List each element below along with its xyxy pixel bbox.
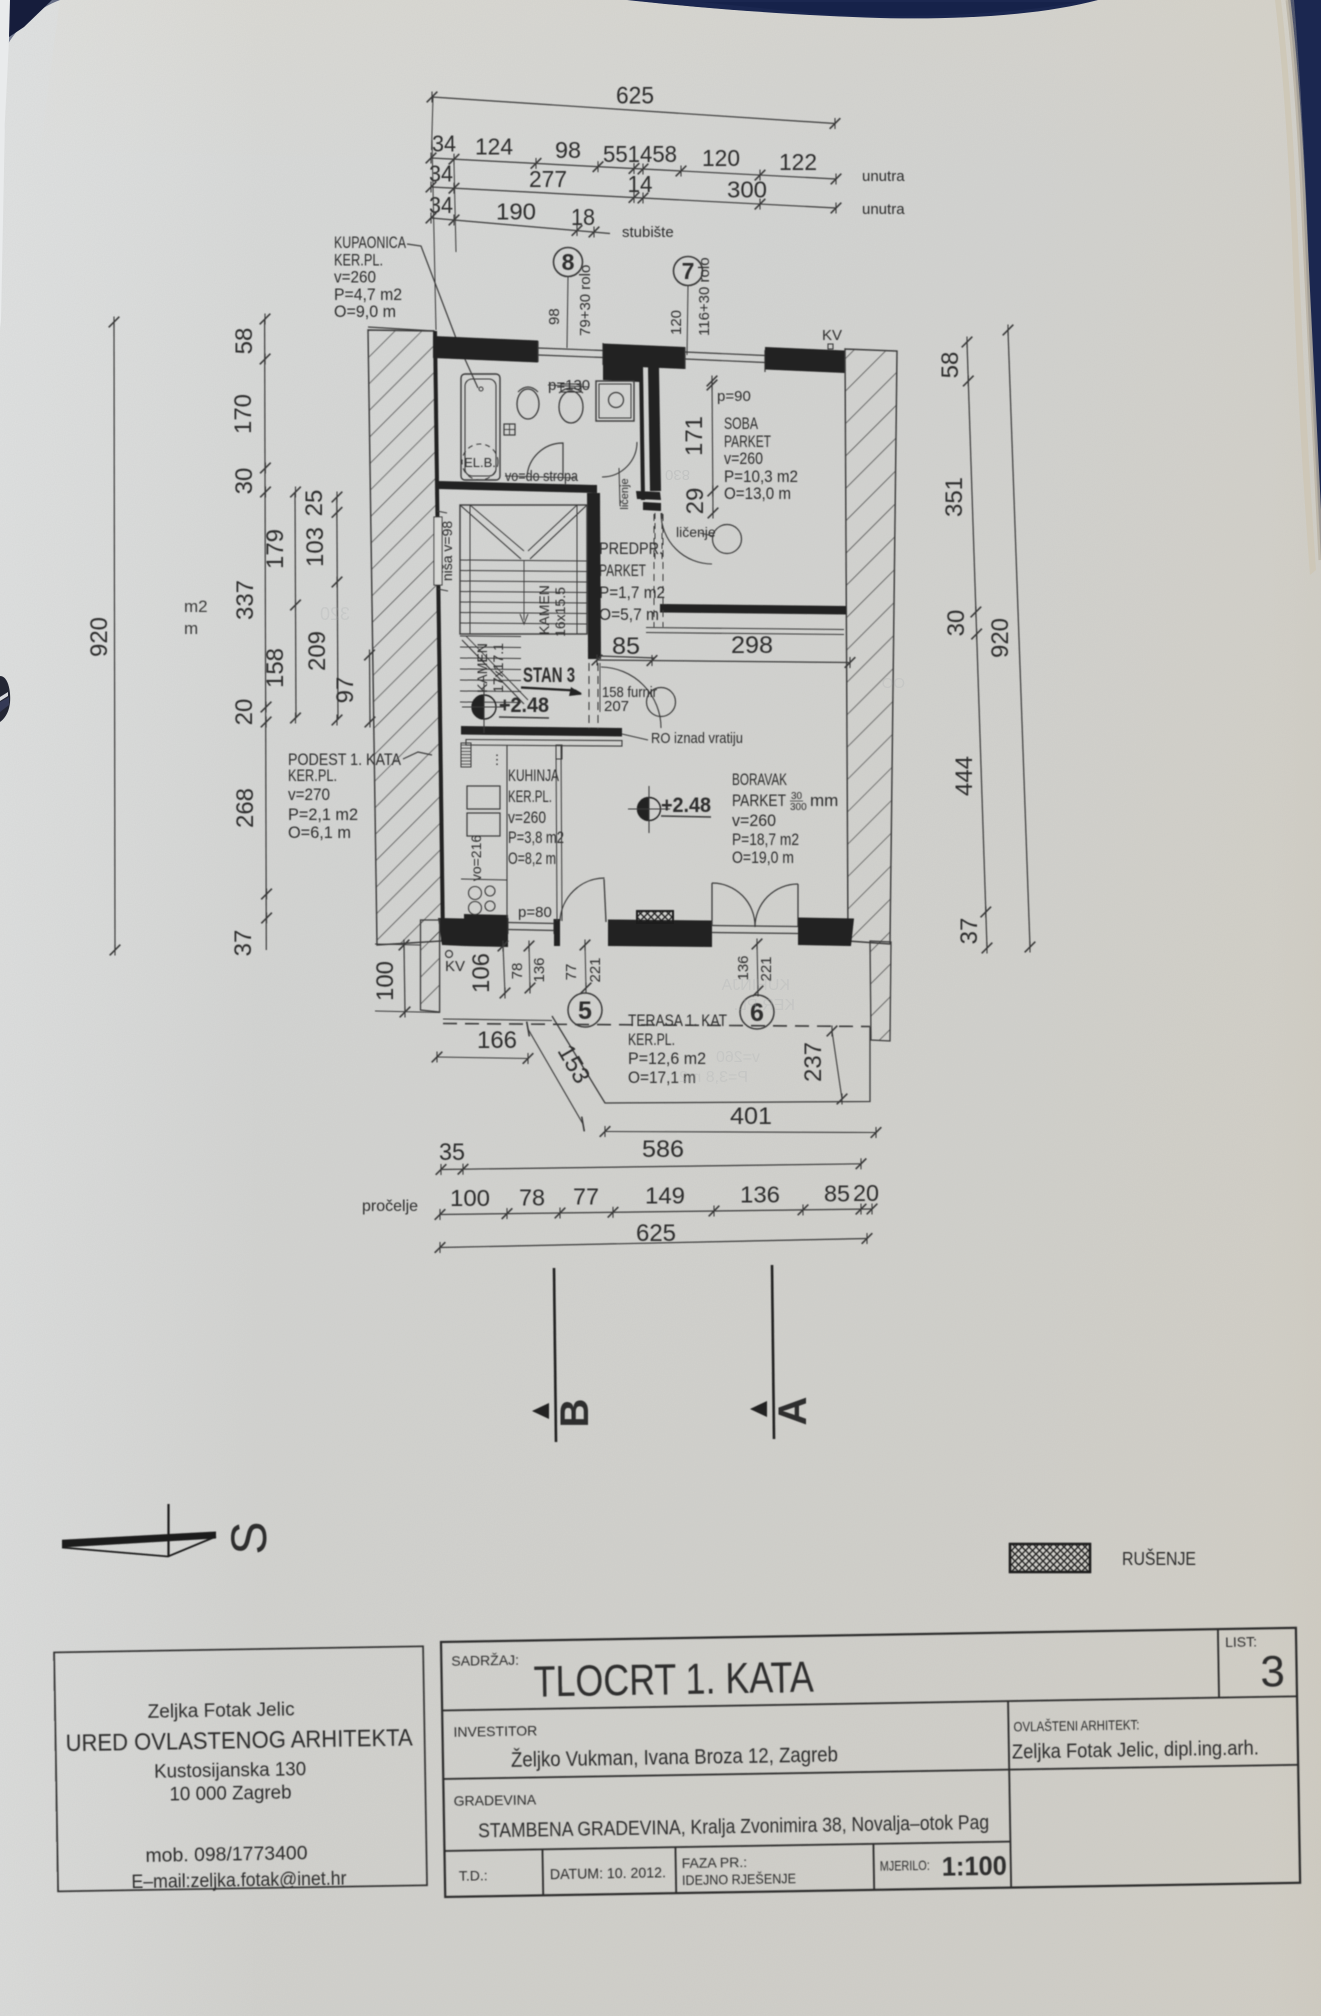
svg-text:unutra: unutra [862, 168, 905, 185]
dim 136 221 right [757, 942, 758, 993]
svg-text:97: 97 [332, 677, 359, 704]
svg-text:KAMEN: KAMEN [536, 585, 552, 635]
svg-text:KV: KV [445, 958, 465, 975]
predpr door top line [600, 656, 655, 658]
svg-text:14: 14 [628, 171, 653, 197]
svg-text:pročelje: pročelje [362, 1198, 418, 1215]
left dim col 58 170 30 337 20 268 37 [265, 319, 267, 950]
left dim col 179 158 [295, 492, 296, 718]
svg-text:149: 149 [645, 1183, 685, 1209]
left dim 920 [114, 322, 115, 950]
svg-text:Zeljka Fotak Jelic: Zeljka Fotak Jelic [147, 1699, 294, 1722]
level +2.48 stan [472, 695, 496, 719]
svg-text:P=1,7 m2: P=1,7 m2 [599, 583, 665, 602]
svg-text:320: 320 [320, 604, 350, 624]
stair stringers [469, 505, 471, 634]
svg-text:KUHINJA: KUHINJA [721, 977, 790, 994]
svg-text:T.D.:: T.D.: [459, 1867, 488, 1883]
svg-text:5: 5 [578, 997, 592, 1025]
svg-text:KER.PL.: KER.PL. [334, 250, 383, 269]
RO wall [461, 726, 622, 737]
window stubiste [538, 348, 603, 351]
svg-text:625: 625 [616, 82, 654, 109]
soba south wall [660, 604, 846, 615]
svg-text:MJERILO:: MJERILO: [880, 1857, 930, 1874]
svg-text:16x15.5: 16x15.5 [552, 587, 568, 637]
svg-text:mm: mm [810, 791, 838, 810]
svg-text:TERASA 1. KAT: TERASA 1. KAT [628, 1011, 727, 1030]
left info box [54, 1646, 427, 1891]
svg-text:vo=216: vo=216 [468, 835, 484, 882]
wall top-left outer line [368, 327, 434, 331]
svg-text:P=18,7 m2: P=18,7 m2 [732, 830, 799, 849]
svg-text:8: 8 [562, 249, 575, 275]
dim row 35 586 [441, 1164, 861, 1170]
svg-text:179: 179 [262, 529, 289, 569]
section line B [554, 1268, 556, 1442]
svg-text:337: 337 [232, 580, 259, 620]
svg-text:ličenje: ličenje [676, 524, 716, 540]
svg-text:STAN 3: STAN 3 [523, 664, 575, 687]
left dim col 25 103 209 [337, 497, 338, 720]
svg-text:122: 122 [779, 149, 817, 175]
svg-text:+2.48: +2.48 [499, 694, 549, 717]
svg-text:120: 120 [702, 145, 740, 171]
svg-text:30: 30 [943, 610, 970, 637]
EL.B. boiler dashed circle [462, 444, 498, 480]
stair arrow [523, 560, 525, 620]
svg-text:BORAVAK: BORAVAK [732, 770, 787, 789]
sink circles [469, 887, 482, 900]
section circle 7 [674, 257, 703, 286]
svg-text:ličenje: ličenje [619, 478, 631, 509]
svg-text:PARKET: PARKET [599, 561, 646, 580]
left wall inner thick line [433, 331, 445, 941]
svg-text:SOBA: SOBA [724, 414, 758, 433]
svg-text:120: 120 [668, 310, 685, 335]
svg-text:TLOCRT 1. KATA: TLOCRT 1. KATA [533, 1653, 814, 1707]
svg-text:100: 100 [372, 961, 399, 1001]
svg-text:O=5,7 m: O=5,7 m [599, 605, 659, 624]
svg-text:20: 20 [853, 1180, 879, 1206]
soba west wall [648, 366, 661, 491]
comb drainer [461, 743, 471, 767]
svg-text:KAMEN: KAMEN [474, 643, 490, 693]
treads lower flight [460, 635, 521, 638]
demolition patch on pier [637, 911, 673, 923]
svg-text:124: 124 [475, 133, 513, 159]
svg-text:v=260: v=260 [508, 808, 546, 827]
svg-text:830: 830 [665, 466, 690, 483]
svg-text:S: S [221, 1521, 277, 1554]
svg-text:277: 277 [529, 166, 567, 192]
svg-text:v=260: v=260 [334, 268, 376, 287]
svg-text:237: 237 [800, 1042, 827, 1082]
svg-text:1:100: 1:100 [942, 1851, 1007, 1882]
pointer podest [403, 752, 432, 759]
dim 625 top [432, 97, 835, 124]
svg-text:920: 920 [987, 618, 1014, 658]
right band lower strip [870, 941, 891, 1041]
svg-text:29: 29 [682, 488, 709, 515]
rusenje swatch [1010, 1544, 1090, 1572]
svg-text:stubište: stubište [622, 224, 674, 241]
svg-text:58: 58 [231, 328, 258, 355]
svg-text:166: 166 [477, 1027, 517, 1054]
svg-text:KER.PL.: KER.PL. [508, 787, 552, 806]
paper right edge stack [1288, 0, 1321, 560]
wc wall chunk [603, 362, 640, 382]
svg-text:O=9,0 m: O=9,0 m [334, 302, 396, 321]
svg-text:103: 103 [302, 527, 329, 567]
svg-text:+2.48: +2.48 [661, 794, 711, 817]
wall right of stairs [587, 493, 601, 659]
svg-text:35: 35 [439, 1139, 465, 1166]
svg-text:P=12,6 m2: P=12,6 m2 [628, 1049, 706, 1068]
svg-text:20: 20 [231, 699, 258, 726]
north arrow [62, 1532, 216, 1548]
svg-text:586: 586 [642, 1136, 684, 1163]
circle 5 [568, 993, 602, 1027]
toilet 1 [517, 389, 539, 419]
svg-text:30: 30 [231, 468, 258, 495]
svg-text:O=6,1 m: O=6,1 m [288, 823, 351, 842]
svg-text:920: 920 [86, 617, 113, 657]
lower double line [646, 628, 844, 630]
dim 78 136 [529, 944, 530, 990]
svg-text:268: 268 [232, 788, 259, 828]
svg-text:O=19,0 m: O=19,0 m [732, 848, 794, 867]
dim 237 [832, 1031, 842, 1099]
wc door arc [602, 442, 637, 477]
column circle [713, 525, 742, 554]
svg-text:100: 100 [450, 1185, 490, 1211]
treads upper [460, 560, 587, 561]
svg-text:P=4,7 m2: P=4,7 m2 [334, 285, 402, 304]
svg-text:17x17.1: 17x17.1 [490, 643, 506, 693]
bottom wall corner block [464, 914, 508, 947]
window kitchen [508, 923, 555, 924]
svg-text:190: 190 [496, 198, 536, 224]
right dim col 58 351 30 444 37 [967, 342, 987, 948]
svg-text:KUPAONICA: KUPAONICA [334, 233, 406, 252]
svg-text:LIST:: LIST: [1225, 1633, 1257, 1650]
svg-text:v=260: v=260 [724, 449, 763, 468]
svg-text:mob. 098/1773400: mob. 098/1773400 [145, 1843, 307, 1867]
navy right wedge [1294, 0, 1321, 555]
entry door arc [601, 667, 661, 728]
dim row 34 190 18 stubiste [431, 218, 610, 234]
svg-text:401: 401 [730, 1103, 772, 1130]
terasa dashed edge [443, 1024, 870, 1027]
svg-text:300: 300 [727, 176, 767, 202]
right dim 920 [1008, 330, 1030, 947]
wall jog below soba wall [636, 491, 661, 500]
svg-text:P=3,8 m2: P=3,8 m2 [679, 1069, 748, 1086]
dim 100 [375, 944, 420, 945]
extension lines [432, 140, 436, 330]
dashed shaft lines [653, 514, 655, 627]
svg-text:PREDPR.: PREDPR. [599, 539, 663, 558]
svg-text:P=3,8 m2: P=3,8 m2 [508, 828, 564, 847]
navy triangle top-left [9, 0, 52, 37]
svg-text:300: 300 [790, 802, 807, 813]
svg-text:URED OVLASTENOG ARHITEKTA: URED OVLASTENOG ARHITEKTA [65, 1724, 412, 1757]
svg-text:p=90: p=90 [717, 388, 751, 405]
svg-text:78: 78 [509, 963, 526, 980]
svg-text:158: 158 [262, 648, 289, 688]
bottom wall right pier [798, 918, 854, 947]
svg-text:625: 625 [636, 1220, 676, 1247]
dim 171 29 [712, 379, 713, 513]
svg-text:34: 34 [429, 192, 453, 218]
door dashes [588, 663, 590, 729]
door p80 leaf+arc [604, 879, 606, 922]
section line A [772, 1265, 774, 1439]
svg-text:221: 221 [587, 957, 604, 982]
svg-text:IDEJNO RJEŠENJE: IDEJNO RJEŠENJE [682, 1870, 796, 1888]
left demolition wall (hatched) [368, 330, 442, 945]
svg-text:Kustosijanska 130: Kustosijanska 130 [154, 1759, 306, 1783]
svg-text:37: 37 [956, 918, 983, 945]
svg-text:551458: 551458 [603, 141, 677, 167]
svg-text:niša v=98: niša v=98 [439, 521, 455, 582]
svg-text:106: 106 [468, 953, 495, 993]
door post circle [647, 688, 676, 717]
svg-text:58: 58 [937, 352, 964, 379]
svg-text:⋮: ⋮ [491, 752, 504, 767]
stairs outline [460, 505, 587, 634]
dark clip object at left edge [0, 676, 10, 722]
kitchen west lower wall [438, 918, 464, 946]
svg-text:171: 171 [681, 416, 708, 456]
svg-text:v=260: v=260 [716, 1049, 760, 1066]
svg-text:KV: KV [822, 327, 842, 344]
dim 625 bottom [440, 1239, 867, 1248]
svg-text:SADRŽAJ:: SADRŽAJ: [451, 1652, 519, 1669]
dim 106 [503, 944, 505, 995]
svg-text:7: 7 [682, 258, 695, 284]
terasa outline [552, 1016, 870, 1103]
svg-text:unutra: unutra [862, 201, 905, 218]
svg-text:DATUM: 10. 2012.: DATUM: 10. 2012. [550, 1864, 666, 1883]
circle 6 [740, 995, 774, 1029]
right demolition wall (hatched) [845, 349, 897, 944]
left dim 97 [369, 655, 372, 722]
stair cut diagonal [462, 640, 524, 704]
svg-text:OVLAŠTENI ARHITEKT:: OVLAŠTENI ARHITEKT: [1013, 1716, 1139, 1734]
svg-text:78: 78 [519, 1184, 545, 1210]
svg-text:m: m [184, 619, 198, 638]
svg-text:37: 37 [230, 930, 257, 957]
svg-text:KER.PL.: KER.PL. [628, 1030, 675, 1049]
svg-text:v=260: v=260 [732, 811, 776, 830]
french window [712, 926, 798, 927]
dim 166 [437, 1057, 528, 1059]
svg-text:85: 85 [612, 633, 640, 660]
stair flight diagonals [460, 505, 521, 559]
dim 85 298 [597, 660, 850, 663]
svg-text:O=13,0 m: O=13,0 m [724, 484, 791, 503]
svg-text:RO iznad vratiju: RO iznad vratiju [651, 730, 743, 747]
svg-text:3: 3 [1260, 1647, 1285, 1696]
svg-text:77: 77 [563, 964, 580, 981]
svg-text:18: 18 [571, 204, 595, 230]
top wall segment 1 [433, 336, 538, 363]
section circle 8 [554, 248, 583, 277]
svg-text:RUŠENJE: RUŠENJE [1122, 1548, 1196, 1569]
pointer kupaonica [407, 244, 478, 388]
svg-text:207: 207 [604, 698, 629, 715]
dim 77 221 [585, 943, 586, 990]
dim 153 slanted [528, 1029, 583, 1124]
svg-text:GRADEVINA: GRADEVINA [454, 1791, 537, 1808]
shower [596, 381, 634, 421]
dim row 34 277 14 300 [431, 187, 836, 208]
svg-text:P=2,1 m2: P=2,1 m2 [288, 805, 358, 824]
svg-text:E–mail:zeljka.fotak@inet.hr: E–mail:zeljka.fotak@inet.hr [131, 1869, 347, 1894]
bottom wall mid pier [608, 920, 712, 948]
svg-text:10 000 Zagreb: 10 000 Zagreb [169, 1783, 291, 1806]
svg-text:p=80: p=80 [518, 904, 552, 921]
svg-text:136: 136 [740, 1181, 780, 1207]
svg-text:170: 170 [230, 394, 257, 434]
floor drain [504, 424, 515, 435]
soba door arc licenje [661, 513, 712, 564]
svg-text:30: 30 [791, 791, 803, 802]
svg-text:Zeljka Fotak Jelic, dipl.in: Zeljka Fotak Jelic, dipl.ing.arh. [1012, 1737, 1259, 1763]
toilet 2 [559, 391, 583, 423]
svg-text:98: 98 [546, 308, 563, 325]
svg-text:209: 209 [304, 631, 331, 671]
svg-text:351: 351 [941, 477, 968, 517]
svg-text:85: 85 [824, 1180, 850, 1206]
pier [554, 919, 560, 946]
KV marker bottom [446, 951, 453, 958]
svg-text:444: 444 [951, 756, 978, 796]
svg-text:PARKET: PARKET [732, 791, 786, 810]
svg-text:B: B [553, 1399, 597, 1428]
svg-text:v=270: v=270 [288, 785, 330, 804]
bathroom right wall [639, 364, 645, 500]
svg-text:KUHINJA: KUHINJA [508, 766, 559, 785]
svg-text:116+30 rolo: 116+30 rolo [696, 257, 713, 336]
svg-text:FAZA PR.:: FAZA PR.: [682, 1854, 748, 1871]
ghost bleedthrough [320, 604, 905, 1086]
svg-text:98: 98 [555, 137, 581, 163]
svg-text:A: A [771, 1397, 815, 1426]
protruding wall below kitchen [421, 920, 440, 1012]
window soba [685, 352, 765, 356]
bathtub [461, 374, 500, 480]
stove squares [467, 786, 500, 809]
svg-text:EL.B.: EL.B. [464, 455, 496, 470]
svg-text:O=8,2 m: O=8,2 m [508, 849, 556, 868]
kitchen counter front [506, 745, 508, 918]
svg-text:34: 34 [432, 131, 456, 157]
dim 401 [605, 1132, 876, 1133]
navy top band [627, 0, 1098, 18]
nisa recess [434, 517, 442, 585]
svg-text:INVESTITOR: INVESTITOR [453, 1722, 537, 1739]
svg-text:298: 298 [731, 632, 773, 659]
svg-text:KER.PL.: KER.PL. [734, 997, 795, 1014]
bathroom south wall [438, 481, 597, 493]
svg-text:OO: OO [882, 675, 905, 692]
white sliver left edge [0, 0, 11, 330]
dim row 100 78 77 149 136 85 20 [440, 1209, 872, 1215]
level +2.48 boravak [638, 798, 661, 821]
dim row 34 124 98 551458 120 122 [431, 158, 836, 179]
svg-text:KER.PL.: KER.PL. [288, 766, 337, 785]
svg-text:25: 25 [301, 490, 328, 517]
svg-text:77: 77 [573, 1184, 599, 1210]
svg-text:m2: m2 [184, 597, 208, 616]
top wall segment 2 [603, 344, 685, 370]
svg-text:136: 136 [531, 957, 548, 982]
bathroom door arc [527, 443, 563, 477]
kitchen partition double line [556, 745, 557, 921]
title block outer [441, 1628, 1300, 1897]
svg-text:79+30 rolo: 79+30 rolo [577, 265, 594, 336]
title block lines [442, 1696, 1297, 1710]
top wall segment 3 [765, 347, 845, 373]
